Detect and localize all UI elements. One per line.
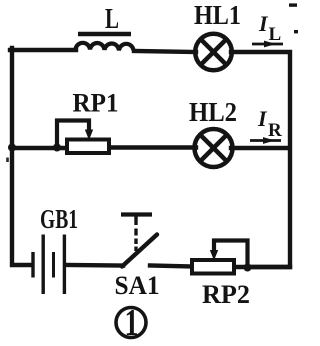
- svg-text:I: I: [257, 106, 268, 131]
- svg-text:GB1: GB1: [40, 204, 78, 234]
- svg-text:R: R: [268, 120, 282, 141]
- svg-text:L: L: [105, 4, 119, 35]
- svg-text:L: L: [269, 24, 282, 45]
- svg-text:HL1: HL1: [194, 0, 241, 30]
- svg-text:HL2: HL2: [189, 97, 237, 127]
- svg-text:1: 1: [125, 302, 139, 344]
- svg-text:RP2: RP2: [202, 280, 250, 309]
- svg-text:RP1: RP1: [73, 89, 119, 118]
- svg-text:I: I: [258, 11, 269, 36]
- svg-text:SA1: SA1: [115, 271, 160, 300]
